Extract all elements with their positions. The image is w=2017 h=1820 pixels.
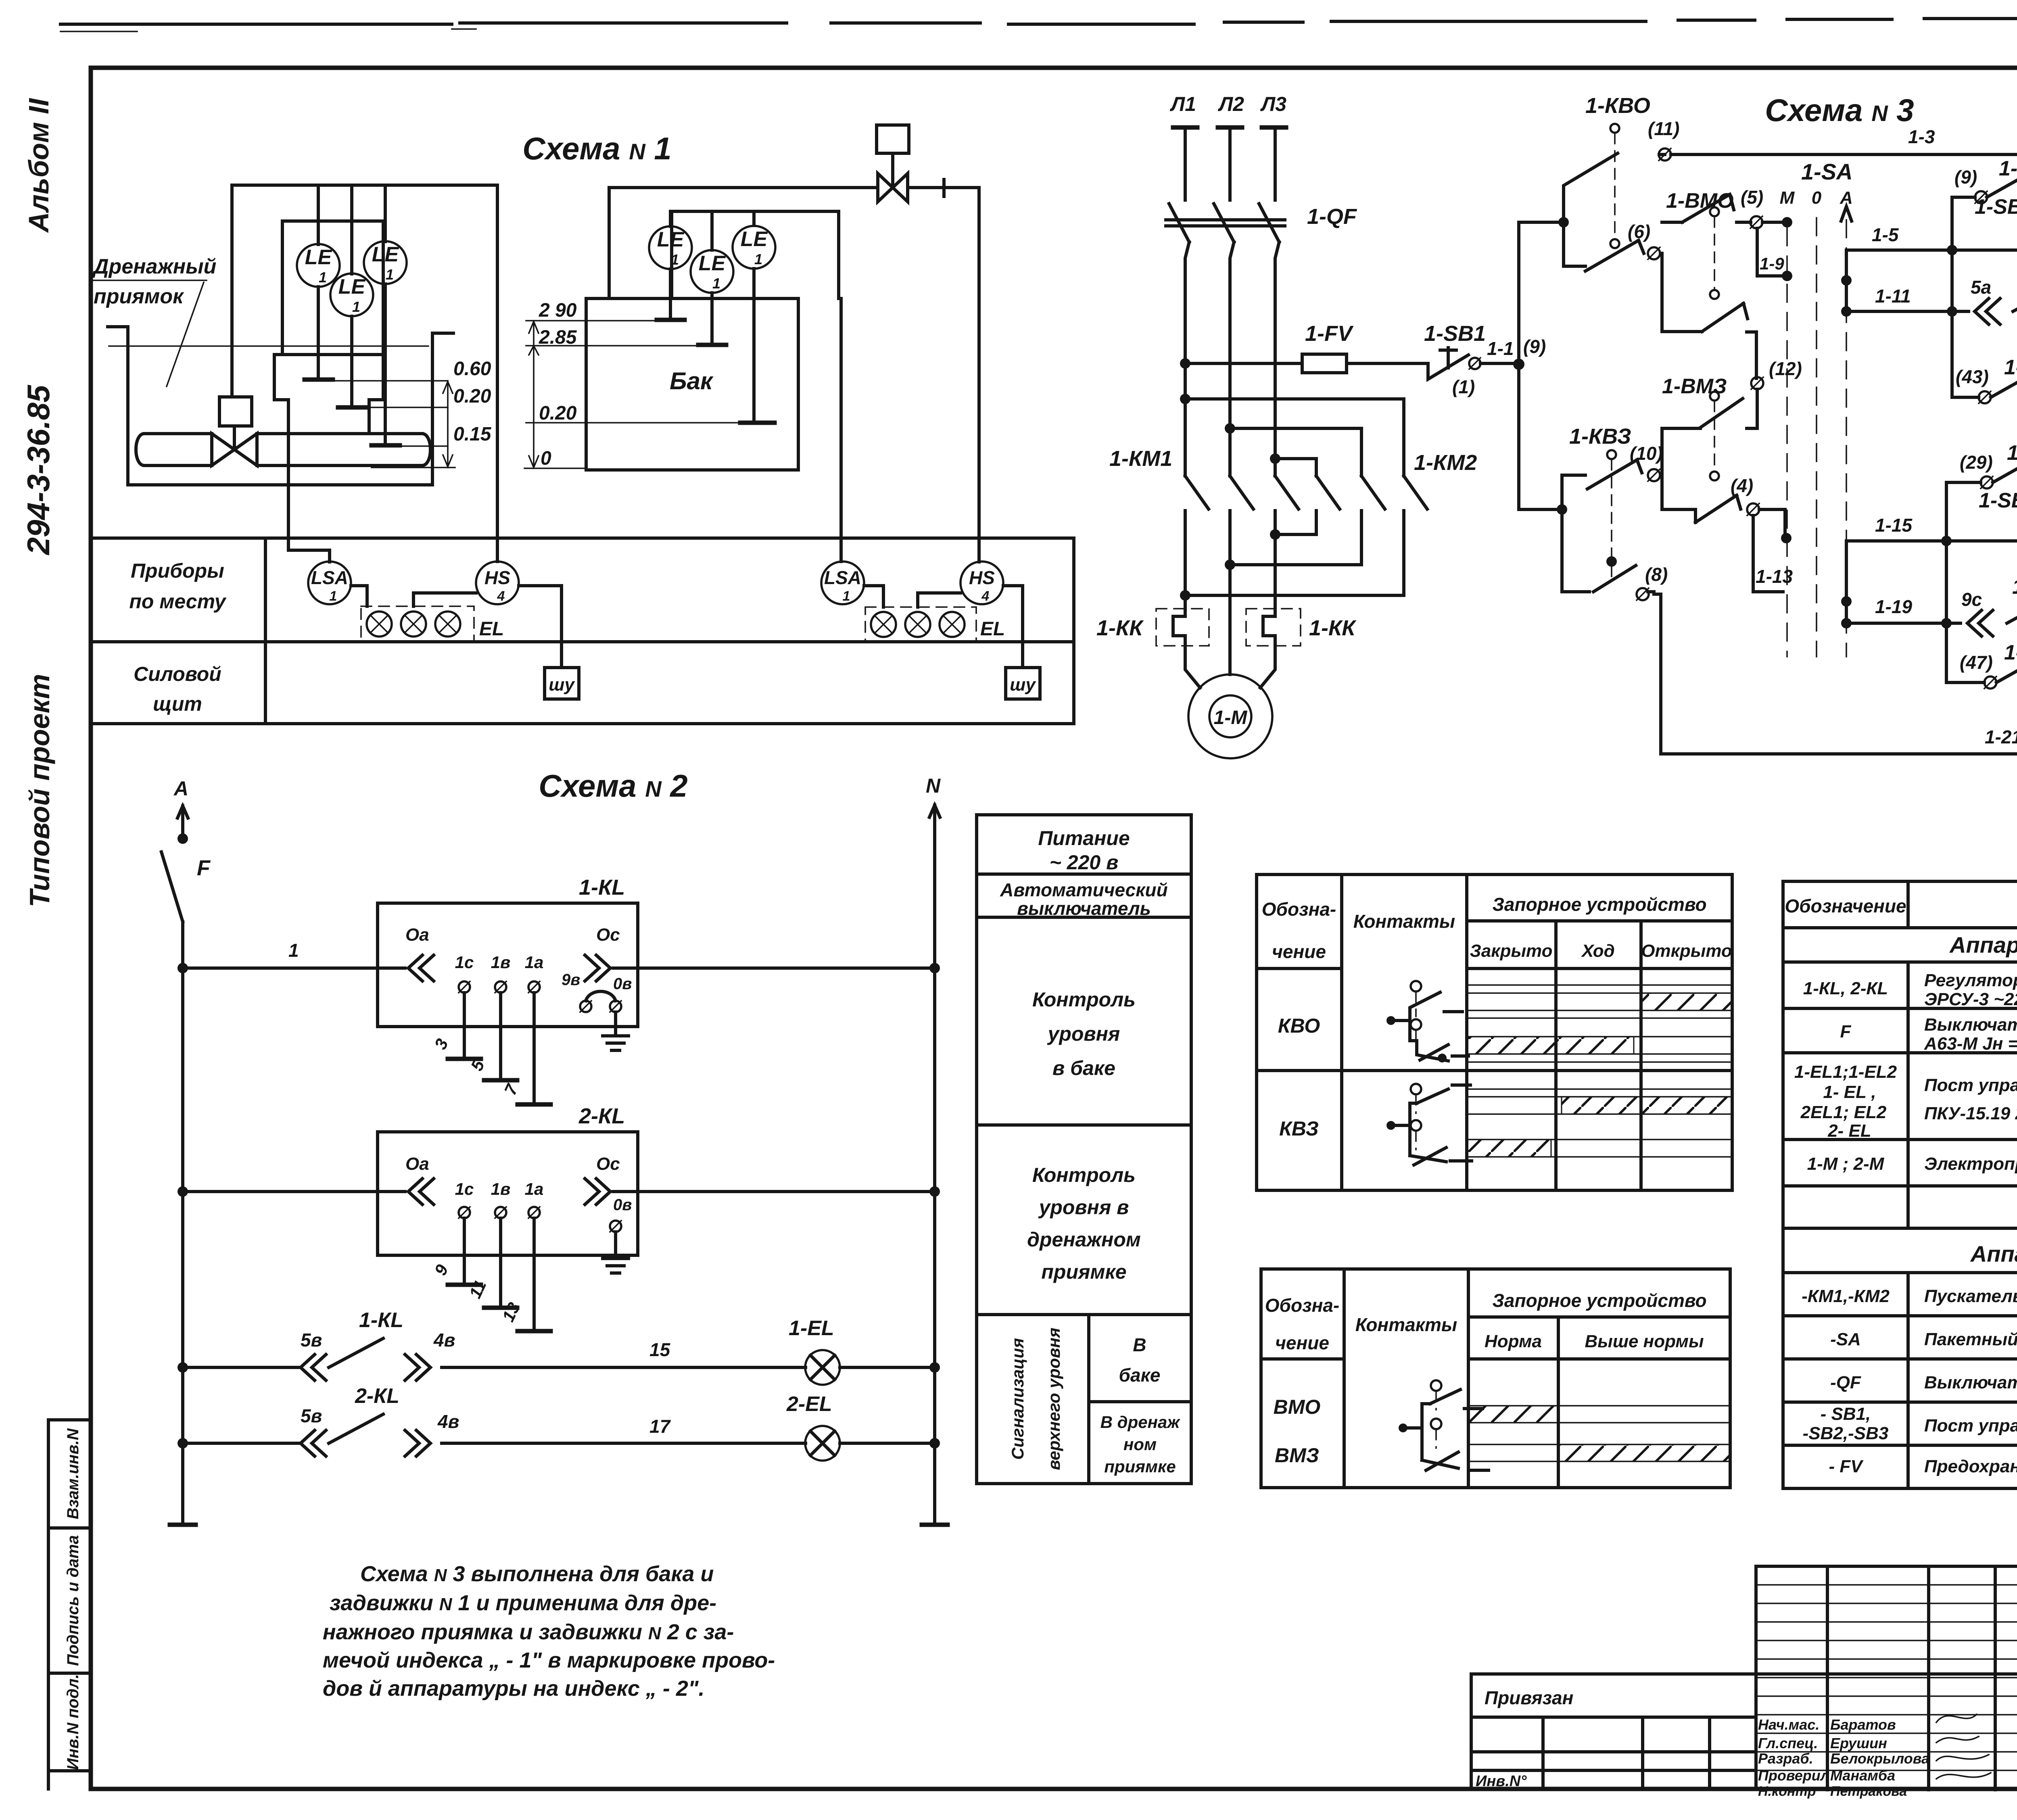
svg-text:Контакты: Контакты — [1353, 911, 1455, 932]
svg-text:выключатель: выключатель — [1017, 898, 1151, 919]
svg-text:LE: LE — [338, 275, 366, 298]
svg-text:В дренаж: В дренаж — [1100, 1413, 1181, 1432]
svg-text:1-КМ2: 1-КМ2 — [1414, 451, 1477, 475]
svg-text:HS: HS — [969, 567, 995, 588]
pipe right segment — [257, 434, 430, 465]
svg-text:1с: 1с — [455, 1179, 474, 1198]
lamp 2-EL — [805, 1426, 840, 1461]
svg-text:1-КL: 1-КL — [359, 1309, 403, 1332]
svg-text:приямке: приямке — [1041, 1261, 1126, 1283]
valve body (pit) — [212, 434, 257, 465]
wire 1-1 — [1480, 362, 1519, 365]
svg-text:Приборы: Приборы — [131, 559, 224, 582]
svg-text:Инв.N подл.: Инв.N подл. — [64, 1674, 82, 1770]
svg-text:баке: баке — [1119, 1365, 1161, 1386]
svg-text:(11): (11) — [1648, 118, 1679, 139]
wire 1 to relay 1-KL — [183, 966, 405, 970]
svg-text:А63-М Jн = 0,63 А Jотс: А63-М Jн = 0,63 А Jотс = 1,3 Jн — [1924, 1034, 2017, 1054]
КВЗ linkage dashed — [1607, 450, 1616, 459]
svg-text:(9): (9) — [1954, 167, 1977, 188]
fuse 1-FV — [1302, 354, 1347, 373]
wire 1-15 — [1846, 539, 1946, 543]
svg-text:0в: 0в — [613, 975, 632, 993]
svg-text:А: А — [173, 777, 188, 800]
pipe left segment — [136, 434, 212, 465]
probe pedestal lower (pit) — [274, 400, 383, 434]
svg-text:Ос: Ос — [596, 1154, 620, 1174]
svg-text:Силовой: Силовой — [134, 663, 221, 685]
svg-text:-КМ1,-КМ2: -КМ1,-КМ2 — [1802, 1286, 1890, 1306]
signal lamp EL a1 — [367, 612, 392, 637]
svg-text:мечой индекса „ - 1" в марки: мечой индекса „ - 1" в маркировке прово- — [323, 1648, 775, 1672]
electrode rod 7 — [532, 993, 536, 1104]
heater element A — [1173, 609, 1185, 646]
breaker F — [161, 852, 183, 922]
supply leads — [1185, 127, 1275, 200]
supply terminal bars — [1173, 125, 1286, 130]
terminal (12) — [1751, 377, 1763, 389]
svg-text:EL: EL — [980, 618, 1005, 640]
junction КМ2 tap phase 1 — [1180, 394, 1190, 404]
terminal (11) КВО — [1659, 148, 1671, 161]
svg-text:1-1: 1-1 — [1487, 338, 1514, 359]
А column solid segment lower — [1845, 541, 1848, 623]
relay contact 1-KL row 1-11 — [1952, 285, 2017, 311]
instrument location table frame — [91, 538, 1074, 724]
merge wire phase 1 — [1185, 594, 1404, 597]
svg-text:задвижки N 1 и применима для: задвижки N 1 и применима для дре- — [330, 1591, 716, 1615]
level sensor LE3 (pit) — [364, 241, 407, 284]
signal lamp EL c2 — [940, 612, 965, 637]
svg-text:Н.контр: Н.контр — [1758, 1784, 1816, 1799]
svg-text:1-М: 1-М — [1214, 707, 1248, 728]
svg-text:шу: шу — [549, 675, 575, 695]
svg-text:в баке: в баке — [1052, 1057, 1115, 1079]
ground under 1-KL — [614, 1012, 617, 1036]
level line 0.60 — [307, 380, 448, 382]
svg-text:1-КМ1: 1-КМ1 — [2004, 356, 2017, 379]
terminal (4) — [1747, 503, 1759, 516]
svg-text:Открыто: Открыто — [1641, 941, 1732, 961]
svg-text:LE: LE — [657, 228, 685, 251]
КВЗ hatch closed — [1467, 1140, 1551, 1157]
svg-text:LE: LE — [699, 252, 726, 275]
svg-text:ВМО: ВМО — [1274, 1396, 1321, 1418]
pushbutton 1-SB1 — [1428, 348, 1468, 379]
scheme3 left bus — [1517, 222, 1520, 509]
probe tip 1 (tank) — [657, 318, 685, 322]
svg-text:1-КВО: 1-КВО — [1585, 94, 1650, 118]
limit switch 1-КВО upper contact — [1564, 153, 1665, 222]
svg-text:1-КМ1: 1-КМ1 — [1999, 157, 2017, 180]
wire КМ2 feed 2 — [1230, 428, 1361, 476]
svg-text:Запорное устройство: Запорное устройство — [1492, 1290, 1706, 1311]
svg-text:(29): (29) — [1960, 452, 1993, 473]
electrode rod 13 — [532, 1218, 536, 1331]
level line 2.85 — [526, 345, 699, 346]
svg-text:1в: 1в — [491, 953, 511, 972]
wire КМ2 feed 1 — [1185, 399, 1404, 476]
aux contact 1-КМ1 row (43)(45) — [1952, 366, 2017, 397]
svg-text:Пускатель магнитный: Пускатель магнитный — [1924, 1286, 2017, 1306]
svg-text:М: М — [1780, 188, 1795, 208]
limit switch 1-КВЗ lower contact row (8) — [1562, 509, 1654, 592]
wire 1-9 stub — [1757, 228, 1787, 276]
svg-text:1-FV: 1-FV — [1305, 321, 1354, 346]
svg-text:HS: HS — [484, 567, 510, 588]
svg-text:F: F — [197, 856, 211, 880]
svg-text:чение: чение — [1275, 1332, 1329, 1353]
svg-text:Баратов: Баратов — [1830, 1716, 1896, 1733]
svg-text:15: 15 — [649, 1339, 671, 1360]
wire to LE sensors (pit) — [318, 185, 385, 274]
hand switch HS1 — [476, 561, 519, 604]
svg-text:(5): (5) — [1741, 187, 1763, 208]
svg-text:1-ВМЗ: 1-ВМЗ — [1662, 375, 1727, 398]
svg-text:дов й аппаратуры на индекс: дов й аппаратуры на индекс „ - 2". — [323, 1676, 705, 1701]
svg-text:Нач.мас.: Нач.мас. — [1758, 1716, 1819, 1733]
svg-text:2- ЕL: 2- ЕL — [1827, 1121, 1871, 1141]
sensor guide box (tank) — [672, 211, 839, 298]
contact symbol КВО — [1386, 981, 1468, 1062]
svg-text:Привязан: Привязан — [1485, 1687, 1573, 1708]
wire to relay 2-KL — [183, 1190, 405, 1193]
svg-text:2.85: 2.85 — [539, 327, 577, 348]
wire (8) down to 1-21 — [1654, 594, 1661, 754]
contact symbol КВЗ — [1386, 1084, 1472, 1165]
svg-text:Гл.спец.: Гл.спец. — [1758, 1735, 1818, 1751]
probe stem 3 (tank) — [752, 269, 756, 423]
signal lamp EL a2 — [871, 612, 896, 637]
wire HS1 to ШУ1 — [519, 586, 562, 668]
svg-text:LE: LE — [305, 246, 332, 269]
control cabinet ШУ1 box — [545, 668, 579, 699]
dimension line with arrows (pit levels) — [443, 381, 453, 468]
svg-text:2-ЕL: 2-ЕL — [786, 1392, 832, 1416]
electrode rod 3 — [463, 993, 466, 1059]
wire 2-KL to N bus — [613, 1190, 935, 1193]
svg-text:-SА: -SА — [1830, 1330, 1861, 1349]
electrode rod 9 — [463, 1218, 466, 1285]
svg-text:1-15: 1-15 — [1875, 515, 1913, 536]
svg-text:1-КL: 1-КL — [2012, 575, 2017, 599]
svg-text:F: F — [1840, 1022, 1852, 1041]
svg-text:(1): (1) — [1452, 376, 1475, 397]
svg-text:1-SB2: 1-SB2 — [1975, 195, 2017, 219]
torn paper top edge line — [61, 18, 2017, 24]
ВМ signal row lines — [1468, 1406, 1730, 1461]
valve actuator box — [219, 397, 252, 426]
svg-text:5а: 5а — [1971, 277, 1991, 298]
tank body (Бак) — [586, 298, 798, 470]
svg-text:1-9: 1-9 — [1760, 254, 1784, 273]
svg-text:Предохранитель: Предохранитель — [1924, 1457, 2017, 1476]
svg-text:1- ЕL ,: 1- ЕL , — [1823, 1082, 1876, 1102]
signal lamp EL b2 — [905, 612, 930, 637]
heater element C — [1263, 609, 1275, 646]
ВМО linkage dashed — [1710, 207, 1719, 216]
junction fuse tap — [1180, 358, 1190, 369]
breaker 1-QF crossbar — [1166, 220, 1285, 226]
svg-text:17: 17 — [649, 1416, 671, 1437]
svg-text:1-21: 1-21 — [1985, 726, 2017, 747]
valve stem (top) — [891, 153, 894, 186]
svg-text:9в: 9в — [562, 971, 580, 989]
svg-text:уровня в: уровня в — [1038, 1196, 1129, 1219]
wire 1-13 — [1753, 516, 1783, 592]
svg-text:Разраб.: Разраб. — [1758, 1750, 1813, 1767]
wire КМ2 feed 3 — [1275, 459, 1316, 476]
ВМО hatch норма — [1468, 1406, 1558, 1423]
svg-text:Пост управления кнопочный: Пост управления кнопочный — [1924, 1416, 2017, 1436]
scheme2 left bus — [181, 922, 184, 1525]
svg-text:4в: 4в — [437, 1411, 459, 1432]
svg-text:0в: 0в — [613, 1196, 632, 1214]
svg-text:0.15: 0.15 — [453, 424, 492, 445]
КВЗ hatch run-open — [1562, 1097, 1732, 1114]
svg-text:0: 0 — [1812, 188, 1822, 208]
wire lamp 1-EL to N — [840, 1366, 935, 1369]
svg-text:0.20: 0.20 — [453, 386, 491, 407]
probe stem 2 (tank) — [710, 293, 714, 345]
level sensor LE3 (tank) — [733, 226, 775, 269]
valve body (top) — [878, 173, 908, 202]
svg-text:- SВ1,: - SВ1, — [1821, 1404, 1871, 1424]
svg-text:(8): (8) — [1645, 564, 1668, 585]
svg-text:1-11: 1-11 — [1875, 286, 1911, 307]
svg-text:Манамба: Манамба — [1830, 1767, 1895, 1784]
svg-text:Контроль: Контроль — [1032, 1164, 1136, 1186]
water line in pit — [109, 345, 428, 347]
svg-text:Белокрылова: Белокрылова — [1830, 1750, 1929, 1767]
ВМ contacts table frame — [1261, 1269, 1730, 1488]
svg-text:Регулятор сигнализатор уровн: Регулятор сигнализатор уровня — [1924, 971, 2017, 990]
sensor guide box (pit) — [282, 221, 383, 355]
control cabinet ШУ2 box — [1006, 668, 1040, 699]
ВМЗ hatch выше нормы — [1558, 1444, 1730, 1461]
level sensor LE2 (tank) — [691, 250, 733, 293]
hand switch HS2 — [960, 561, 1003, 604]
probe stem 1 (tank) — [669, 269, 672, 320]
svg-text:(9): (9) — [1523, 336, 1546, 357]
svg-text:0: 0 — [541, 448, 551, 469]
КВО hatch closed-run — [1467, 1037, 1634, 1054]
svg-text:нажного приямка и задвижки: нажного приямка и задвижки N 2 с за- — [323, 1620, 734, 1644]
svg-text:1: 1 — [386, 266, 394, 283]
title block signature grid — [1756, 1566, 2017, 1790]
svg-text:LSA: LSA — [311, 567, 348, 588]
svg-text:Контакты: Контакты — [1355, 1314, 1457, 1335]
valve stem — [233, 426, 236, 449]
junction КМ2 tap phase 2 — [1225, 423, 1235, 434]
level line 0.20 — [338, 407, 448, 408]
wire valve to HS column — [908, 186, 979, 189]
riser from tank top to valve wire — [608, 188, 611, 298]
wire LSA2 to lamp box 2 — [864, 586, 883, 607]
svg-text:1-19: 1-19 — [1875, 596, 1912, 617]
svg-text:2 90: 2 90 — [539, 300, 577, 321]
breaker 1-QF blades — [1169, 204, 1279, 242]
wire row (4) — [1662, 495, 1741, 522]
wire (4) to М column — [1759, 509, 1785, 538]
привязан box — [1471, 1674, 2017, 1789]
left bus end bar — [170, 1523, 196, 1527]
lamp group dashed box 1 — [361, 606, 474, 642]
svg-text:~ 220 в: ~ 220 в — [1050, 851, 1119, 874]
svg-text:Электропривод типа „ А" 87А0: Электропривод типа „ А" 87А008 — [1924, 1154, 2017, 1174]
svg-text:0.60: 0.60 — [453, 358, 491, 380]
vertical link ВМЗ to КВЗ row — [1660, 428, 1664, 509]
probe tip 2 (tank) — [698, 343, 726, 347]
svg-text:1-ВМО: 1-ВМО — [1666, 189, 1734, 213]
svg-text:5в: 5в — [301, 1330, 322, 1350]
wire bus to КВЗ loop — [1519, 508, 1562, 511]
svg-text:1-КМ1: 1-КМ1 — [1109, 447, 1172, 471]
svg-text:1: 1 — [330, 589, 337, 604]
wire guide box to LSA2 — [839, 298, 843, 561]
svg-text:Альбом II: Альбом II — [23, 98, 54, 233]
svg-text:1: 1 — [352, 298, 360, 315]
level base line — [372, 467, 455, 468]
level sensor LE1 (tank) — [649, 226, 692, 269]
contact symbol ВМО/ВМЗ — [1399, 1380, 1489, 1470]
valve tail end — [942, 179, 946, 196]
wire 1-11 — [1846, 310, 1952, 313]
probe tip 3 — [372, 443, 400, 448]
svg-text:1-М ; 2-М: 1-М ; 2-М — [1807, 1154, 1885, 1174]
wire (5) to М column — [1762, 221, 1787, 224]
signal lamp EL c1 — [435, 612, 460, 637]
svg-text:1-ЕL1;1-ЕL2: 1-ЕL1;1-ЕL2 — [1794, 1062, 1897, 1082]
svg-text:9с: 9с — [1961, 589, 1982, 610]
function column table frame — [977, 815, 1191, 1484]
terminal circle SB1 out — [1469, 358, 1480, 369]
phase wires below breaker — [1185, 242, 1279, 476]
svg-text:1-QF: 1-QF — [1307, 205, 1357, 229]
svg-text:4: 4 — [497, 589, 505, 604]
left stamp column boxes — [48, 1420, 91, 1789]
svg-text:Типовой проект: Типовой проект — [24, 674, 55, 908]
wires to LE sensors (tank) — [670, 211, 754, 250]
wire top branch — [1519, 221, 1564, 224]
svg-text:4: 4 — [981, 589, 990, 604]
level line 0.20 (tank) — [526, 422, 741, 424]
wire LSA1 to lamp box — [351, 586, 367, 606]
svg-text:Дренажный: Дренажный — [92, 255, 216, 278]
motor leads — [1185, 565, 1275, 688]
svg-text:1с: 1с — [455, 953, 474, 972]
КВО hatch open — [1641, 993, 1732, 1010]
svg-text:щит: щит — [153, 693, 202, 715]
svg-text:1-КВЗ: 1-КВЗ — [1569, 424, 1631, 449]
svg-text:ПКУ-15.19 231-5У У2 на 3 эл: ПКУ-15.19 231-5У У2 на 3 элемента — [1924, 1104, 2017, 1123]
wire 1-3 — [1671, 153, 2017, 156]
svg-text:-QF: -QF — [1830, 1373, 1861, 1392]
svg-text:- FV: - FV — [1829, 1457, 1864, 1476]
wire lamp box to HS1 — [413, 593, 476, 606]
svg-text:приямок: приямок — [94, 285, 184, 308]
merge wire phase 3 — [1275, 533, 1316, 536]
svg-text:1: 1 — [288, 940, 299, 961]
svg-text:Обозна-: Обозна- — [1265, 1295, 1340, 1316]
svg-text:Питание: Питание — [1038, 827, 1130, 849]
svg-text:ВМЗ: ВМЗ — [1275, 1444, 1319, 1467]
ВМЗ linkage dashed — [1710, 392, 1719, 401]
svg-text:1а: 1а — [525, 1179, 544, 1198]
junction КМ2 tap phase 3 — [1270, 453, 1280, 464]
level sensor LE2 (pit) — [330, 273, 373, 316]
svg-text:КВЗ: КВЗ — [1279, 1117, 1319, 1140]
travel switch 1-ВМО upper contact row (5) — [1662, 194, 1751, 222]
svg-text:В: В — [1133, 1334, 1146, 1355]
arrow contact in 5а — [1975, 298, 2000, 324]
svg-text:Ос: Ос — [596, 925, 620, 945]
КВО linkage dashed — [1610, 124, 1619, 133]
svg-text:уровня: уровня — [1047, 1023, 1120, 1045]
probe tip 2 — [338, 405, 366, 410]
svg-text:(10): (10) — [1630, 443, 1663, 464]
aux contact 1-КМ1 row (9)(11) — [1952, 166, 2017, 197]
svg-text:1: 1 — [754, 251, 762, 267]
svg-text:Петракова: Петракова — [1830, 1784, 1907, 1799]
motor 1-М inner circle — [1209, 695, 1251, 737]
top wire tank to valve — [609, 186, 878, 189]
svg-text:верхнего уровня: верхнего уровня — [1044, 1327, 1063, 1470]
probe pedestal upper (pit) — [274, 355, 383, 400]
svg-text:Выше нормы: Выше нормы — [1585, 1332, 1704, 1351]
wire fuse to SB1 — [1347, 362, 1428, 365]
probe tip 3 (tank) — [740, 421, 775, 425]
svg-text:Л1: Л1 — [1170, 93, 1196, 115]
svg-text:2ЕL1; ЕL2: 2ЕL1; ЕL2 — [1800, 1102, 1887, 1122]
svg-text:1-КК: 1-КК — [1096, 616, 1144, 640]
svg-text:Закрыто: Закрыто — [1470, 941, 1553, 961]
svg-text:Аппаратура на силовом щите: Аппаратура на силовом щите — [1970, 1241, 2017, 1267]
aux contact 1-КМ2 row (47)(49) — [1946, 651, 2017, 682]
svg-text:0.20: 0.20 — [539, 403, 577, 424]
svg-text:шу: шу — [1010, 675, 1036, 695]
travel switch 1-ВМО lower contact row (12) — [1662, 303, 1756, 378]
svg-text:N: N — [926, 774, 941, 797]
thermal relay 1-КК heater A (dashed box) — [1156, 609, 1209, 646]
svg-text:Обозначение: Обозначение — [1785, 895, 1906, 916]
svg-text:Бак: Бак — [670, 367, 714, 394]
close group left vertical — [1945, 482, 1948, 682]
merge wire phase 2 — [1230, 563, 1361, 566]
svg-text:чение: чение — [1272, 941, 1326, 962]
svg-text:Схема N 3: Схема N 3 — [1765, 92, 1914, 128]
wire 1-5 — [1846, 248, 1952, 252]
level line 2.90 — [526, 320, 658, 321]
svg-text:1: 1 — [712, 275, 720, 292]
contact 1-KL row 15 — [183, 1338, 806, 1367]
torn edge small mark — [61, 29, 476, 31]
level relay 2-KL box — [378, 1132, 638, 1255]
svg-text:Подпись и дата: Подпись и дата — [64, 1535, 82, 1666]
svg-text:LE: LE — [741, 227, 768, 251]
svg-text:1-5: 1-5 — [1872, 224, 1899, 245]
svg-text:Норма: Норма — [1485, 1332, 1542, 1351]
svg-text:Обозна-: Обозна- — [1262, 899, 1336, 920]
svg-text:Контроль: Контроль — [1032, 988, 1136, 1011]
svg-text:EL: EL — [479, 618, 504, 640]
svg-text:1-ЕL: 1-ЕL — [789, 1317, 834, 1340]
svg-text:1-КL, 2-КL: 1-КL, 2-КL — [1803, 979, 1888, 998]
svg-text:-SВ2,-SВ3: -SВ2,-SВ3 — [1803, 1423, 1889, 1443]
contactor 1-КМ2 main contacts — [1316, 476, 1427, 509]
svg-text:1-SB1: 1-SB1 — [1424, 321, 1486, 346]
svg-text:Л3: Л3 — [1260, 93, 1286, 115]
